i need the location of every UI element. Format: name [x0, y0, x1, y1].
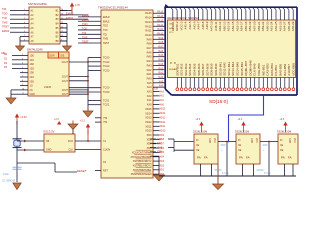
ground below junction line — [83, 108, 93, 118]
svg-text:LS245: LS245 — [44, 86, 52, 89]
ground below U1 left — [16, 43, 25, 52]
svg-text:DS26LS31M: DS26LS31M — [277, 130, 291, 133]
U1 left lower pins to ground wire — [20, 37, 22, 46]
wire drop between U6 U7 — [268, 141, 270, 176]
svg-text:5 Vss: 5 Vss — [222, 171, 229, 175]
U1 left net labels TDI TDO TCK TMS TRST — [2, 7, 22, 33]
svg-text:DM74LS245: DM74LS245 — [27, 48, 43, 52]
svg-text:8: 8 — [24, 40, 25, 42]
svg-text:PA: PA — [281, 156, 285, 160]
svg-text:XSTRB0/XRDY2: XSTRB0/XRDY2 — [133, 160, 152, 163]
P1 top rotated pin names — [171, 21, 295, 31]
svg-text:TMS320VC33_PGE144: TMS320VC33_PGE144 — [98, 6, 128, 10]
svg-text:1: 1 — [24, 9, 25, 11]
svg-text:RA1: RA1 — [159, 72, 164, 75]
svg-text:XA4: XA4 — [159, 85, 164, 88]
wire U4 CLK to U3 — [75, 149, 101, 151]
bus SD horizontal — [172, 94, 298, 96]
svg-text:XHOLDA/XBUSR1: XHOLDA/XBUSR1 — [131, 156, 153, 159]
svg-text:7: 7 — [24, 35, 25, 37]
svg-text:VCC: VCC — [213, 138, 215, 143]
svg-text:FA: FA — [246, 156, 250, 160]
svg-text:VCC: VCC — [255, 138, 257, 143]
svg-text:RA13: RA13 — [145, 21, 152, 24]
svg-text:2D1: 2D1 — [30, 76, 35, 79]
U2 right pin wires to U3 — [69, 62, 88, 94]
svg-text:1D0: 1D0 — [30, 55, 35, 58]
svg-text:Y54: Y54 — [103, 121, 108, 124]
svg-text:IO: IO — [238, 140, 241, 142]
svg-text:TCK: TCK — [82, 27, 87, 31]
svg-text:+3.3: +3.3 — [54, 118, 59, 121]
svg-text:RST: RST — [103, 170, 108, 173]
svg-text:TEST: TEST — [82, 40, 89, 44]
U2 lower left pins to ground wire — [11, 90, 20, 98]
svg-text:TCO0: TCO0 — [103, 87, 110, 90]
svg-text:GND: GND — [250, 138, 252, 143]
IC U3 TMS320VC33 body — [98, 6, 153, 178]
svg-text:XA1: XA1 — [147, 99, 152, 102]
svg-text:PA: PA — [197, 156, 201, 160]
svg-text:2D2: 2D2 — [30, 80, 35, 83]
P1 top pin stubs with bus entries — [171, 7, 293, 20]
svg-text:TRST: TRST — [2, 25, 9, 29]
svg-text:RESET: RESET — [77, 169, 87, 173]
svg-text:XRD: XRD — [157, 151, 162, 154]
svg-text:TCO1: TCO1 — [103, 99, 110, 102]
svg-text:EMU1: EMU1 — [82, 18, 90, 22]
svg-text:XA0: XA0 — [147, 104, 152, 107]
svg-text:4.7K: 4.7K — [75, 4, 80, 7]
svg-text:PA: PA — [239, 156, 243, 160]
svg-text:5: 5 — [22, 67, 23, 69]
svg-text:FCO: FCO — [68, 140, 73, 143]
svg-text:+3.3V: +3.3V — [152, 89, 159, 91]
U2 left pin stubs and numbers — [20, 54, 28, 95]
svg-text:TEST: TEST — [103, 42, 110, 45]
svg-text:XD2: XD2 — [160, 165, 165, 167]
wire drop between U5 U6 — [226, 141, 228, 176]
svg-text:XD10: XD10 — [160, 130, 166, 132]
svg-text:CLKIN: CLKIN — [103, 149, 110, 152]
power label above U4 — [54, 118, 61, 125]
svg-text:OE: OE — [238, 150, 242, 152]
wire U4 FCO to U3 — [75, 140, 101, 142]
svg-text:+3.3V: +3.3V — [20, 115, 27, 119]
svg-text:XA3: XA3 — [157, 142, 162, 145]
P1 bottom terminal rings — [176, 88, 295, 91]
svg-text:RA14: RA14 — [145, 17, 152, 20]
svg-text:GND: GND — [169, 28, 174, 30]
svg-text:TMS: TMS — [82, 35, 88, 39]
ground below U1 right — [63, 43, 72, 52]
svg-text:RA5: RA5 — [147, 56, 152, 59]
svg-text:2: 2 — [24, 13, 25, 15]
wire U6 to U7 — [260, 141, 278, 143]
svg-text:1D2: 1D2 — [30, 63, 35, 66]
svg-text:1OUT: 1OUT — [62, 93, 69, 96]
svg-text:EMU0: EMU0 — [82, 14, 90, 18]
svg-text:1D3: 1D3 — [30, 67, 35, 70]
svg-text:CE: CE — [238, 145, 242, 147]
svg-text:+3.3: +3.3 — [80, 120, 85, 123]
svg-text:10: 10 — [22, 89, 24, 91]
svg-text:XA5: XA5 — [159, 80, 164, 83]
net label near bus bend — [152, 89, 159, 91]
svg-text:6: 6 — [22, 71, 23, 73]
U7 bottom pin wires — [285, 164, 294, 176]
svg-text:XD11: XD11 — [160, 126, 166, 128]
U1 right pin stubs — [60, 11, 67, 41]
svg-text:1G: 1G — [30, 85, 33, 88]
U3 right net labels upper — [157, 11, 163, 88]
IC U5 DS26LS31M body — [193, 130, 218, 164]
svg-text:RA8: RA8 — [159, 41, 164, 44]
IC U6 DS26LS31M body — [235, 130, 260, 164]
svg-text:CLK: CLK — [68, 149, 73, 152]
svg-text:2: 2 — [22, 54, 23, 56]
svg-text:5: 5 — [24, 27, 25, 29]
label 22pF — [3, 172, 9, 176]
svg-text:RA15: RA15 — [157, 11, 163, 14]
svg-text:XMSTRB/XPAGE0: XMSTRB/XPAGE0 — [131, 173, 153, 176]
svg-text:5 Vss: 5 Vss — [264, 171, 271, 175]
svg-text:4: 4 — [24, 22, 25, 24]
wire bottom rail — [159, 175, 296, 177]
net label U8 — [1, 52, 6, 55]
IC U7 DS26LS31M body — [277, 130, 298, 164]
bus right vertical — [296, 7, 298, 95]
svg-text:11: 11 — [22, 93, 24, 95]
svg-text:FA: FA — [204, 156, 208, 160]
svg-text:TMS: TMS — [103, 38, 108, 41]
ground below rail center — [213, 164, 224, 190]
svg-text:XD12: XD12 — [160, 122, 166, 124]
label Vss ticks light blue — [215, 145, 272, 175]
P1 inside left texts — [169, 24, 177, 72]
svg-text:+3.3: +3.3 — [280, 118, 285, 121]
svg-text:RA7: RA7 — [147, 47, 152, 50]
svg-text:RA11: RA11 — [157, 28, 163, 31]
svg-text:TCG0: TCG0 — [103, 61, 110, 64]
svg-text:XA2: XA2 — [157, 138, 162, 141]
svg-text:SDRAM: SDRAM — [169, 68, 177, 71]
svg-text:1OUT: 1OUT — [62, 76, 69, 79]
svg-text:OE: OE — [196, 150, 200, 152]
U6 internal texts — [238, 138, 257, 160]
svg-text:EMU0: EMU0 — [66, 11, 74, 15]
svg-text:RA11: RA11 — [145, 30, 152, 33]
svg-text:EMU0: EMU0 — [2, 29, 10, 33]
svg-text:TCG0: TCG0 — [103, 57, 110, 60]
svg-text:A66-29: A66-29 — [291, 21, 295, 31]
svg-text:XD9: XD9 — [147, 134, 152, 137]
svg-text:RA14: RA14 — [157, 15, 163, 18]
svg-text:XD14: XD14 — [160, 113, 166, 115]
svg-text:RA6: RA6 — [159, 50, 164, 53]
svg-text:TCO0: TCO0 — [103, 91, 110, 94]
U1 internal pin names and numbers — [24, 9, 63, 43]
svg-text:FA: FA — [288, 156, 292, 160]
svg-text:TCG0: TCG0 — [103, 65, 110, 68]
svg-text:TMS: TMS — [2, 20, 8, 24]
svg-text:3: 3 — [22, 58, 23, 60]
U2 highlighted mode cells 2DIR 2OE — [48, 52, 69, 58]
blue select wire — [228, 96, 264, 143]
svg-text:RA2: RA2 — [147, 69, 152, 72]
P1 bottom rotated pin names — [175, 60, 295, 76]
bus diagonal to SD bus — [165, 89, 171, 95]
svg-text:RA0: RA0 — [147, 77, 152, 80]
svg-text:TDO: TDO — [82, 22, 87, 26]
svg-text:2G: 2G — [30, 89, 33, 92]
ground arrow below crystal — [13, 183, 21, 190]
svg-text:Y50: Y50 — [103, 117, 108, 120]
label 32.768KHZ — [2, 179, 16, 183]
ground left of U5 — [150, 156, 165, 181]
svg-text:SN74LVC245A: SN74LVC245A — [28, 2, 47, 6]
U3 internal left pin names mid groups — [103, 57, 110, 173]
svg-text:TDI: TDI — [103, 33, 107, 36]
svg-text:XIOSTRB/XWE1: XIOSTRB/XWE1 — [133, 169, 152, 172]
IC U1 SN74LVC245 body — [28, 2, 60, 44]
U5 bottom pin wires — [201, 164, 212, 176]
svg-text:9: 9 — [22, 84, 23, 86]
svg-text:RA15: RA15 — [145, 12, 152, 15]
svg-text:2DIR: 2DIR — [49, 55, 55, 58]
svg-text:XD4: XD4 — [160, 157, 165, 159]
svg-text:XD15: XD15 — [160, 109, 166, 111]
bus top horizontal — [166, 6, 297, 8]
svg-text:VCC-B58: VCC-B58 — [291, 63, 295, 76]
svg-text:RA10: RA10 — [157, 32, 163, 35]
svg-text:XD11: XD11 — [145, 125, 152, 128]
svg-text:RA3: RA3 — [159, 63, 164, 66]
svg-text:1OUT: 1OUT — [62, 89, 69, 92]
svg-text:CE: CE — [280, 145, 284, 147]
svg-text:CE: CE — [196, 145, 200, 147]
svg-text:XWE: XWE — [157, 146, 163, 149]
svg-text:RA3: RA3 — [147, 64, 152, 67]
svg-text:RA1: RA1 — [147, 73, 152, 76]
U2 internal right pin names — [44, 61, 69, 96]
connector P1 HEADER body — [167, 16, 296, 78]
svg-text:GND: GND — [208, 138, 210, 143]
wire crystal to OSC pin1 — [17, 140, 44, 143]
svg-text:OE: OE — [280, 150, 284, 152]
svg-text:RA8: RA8 — [147, 43, 152, 46]
svg-text:XA0: XA0 — [160, 103, 165, 106]
ground below U2 — [6, 95, 16, 105]
svg-text:6: 6 — [24, 31, 25, 33]
svg-text:RA4: RA4 — [159, 59, 164, 62]
svg-text:RA5: RA5 — [159, 54, 164, 57]
svg-text:3: 3 — [24, 18, 25, 20]
svg-text:RA10: RA10 — [145, 34, 152, 37]
svg-text:8: 8 — [22, 80, 23, 82]
oscillator U4 body — [43, 130, 75, 152]
svg-text:IO: IO — [196, 140, 199, 142]
feeder net labels to U5 — [150, 138, 163, 154]
bus left vertical — [164, 4, 170, 89]
svg-text:XA3: XA3 — [160, 90, 165, 93]
node wire vertical junction to U3 left pins — [69, 58, 101, 111]
U7 internal texts — [280, 138, 295, 160]
svg-text:22pF: 22pF — [3, 172, 9, 176]
U3 internal right pin names — [131, 12, 153, 176]
svg-text:RA2: RA2 — [159, 67, 164, 70]
svg-text:XD3: XD3 — [160, 161, 165, 163]
svg-text:TCK: TCK — [2, 16, 7, 20]
svg-text:EMU1: EMU1 — [66, 16, 74, 20]
U6 bottom pin wires — [243, 164, 254, 176]
svg-text:TDO: TDO — [2, 12, 7, 16]
svg-text:2OE: 2OE — [60, 55, 65, 58]
U3 right bus wires upper (to address bus) — [153, 13, 164, 87]
svg-text:IO: IO — [280, 140, 283, 142]
svg-text:RA6: RA6 — [147, 51, 152, 54]
RESET net label — [77, 169, 101, 173]
svg-text:OSC3.3V: OSC3.3V — [43, 130, 55, 134]
svg-text:2OUT: 2OUT — [62, 61, 69, 64]
wire U5 to U6 — [218, 141, 236, 143]
svg-text:XA5: XA5 — [147, 82, 152, 85]
power +3.3V for crystal — [15, 114, 27, 125]
svg-text:XCLKOUT/XRW0: XCLKOUT/XRW0 — [132, 151, 152, 154]
U4 internal pin names — [46, 140, 73, 152]
svg-text:7: 7 — [22, 76, 23, 78]
crystal Y1 — [13, 139, 22, 148]
svg-text:RA4: RA4 — [147, 60, 152, 63]
svg-text:1OUT: 1OUT — [62, 80, 69, 83]
svg-text:EMU1: EMU1 — [103, 20, 110, 23]
svg-text:GND: GND — [46, 149, 52, 152]
P1 bottom pin stubs — [177, 78, 293, 88]
svg-text:GND: GND — [30, 93, 36, 96]
svg-text:RA12: RA12 — [157, 24, 163, 27]
svg-text:VCC: VCC — [169, 32, 174, 34]
U1 right net wires and labels EMU0 EMU1 — [60, 11, 88, 20]
svg-text:XA1: XA1 — [160, 99, 165, 102]
svg-text:SD[15:0]: SD[15:0] — [209, 99, 228, 105]
wire feeders into U5 — [168, 139, 194, 152]
power +3.3V above U5 — [196, 118, 204, 133]
svg-text:XD12: XD12 — [145, 121, 152, 124]
U2 internal left pin names — [30, 55, 36, 97]
power +3.3V above U6 — [238, 118, 246, 133]
svg-text:RA7: RA7 — [159, 46, 164, 49]
svg-text:RA9: RA9 — [159, 37, 164, 40]
svg-text:4: 4 — [22, 63, 23, 65]
svg-text:XA3: XA3 — [147, 91, 152, 94]
svg-text:EMU0: EMU0 — [103, 16, 110, 19]
wire crystal vertical — [16, 121, 18, 182]
svg-text:VCC: VCC — [293, 138, 295, 143]
svg-text:XD10: XD10 — [145, 130, 152, 133]
svg-text:XB: XB — [46, 140, 50, 143]
svg-text:1D1: 1D1 — [30, 59, 35, 62]
svg-text:+3.3: +3.3 — [238, 118, 243, 121]
U3 left stubs Y50 Y54 — [95, 118, 101, 122]
svg-text:XA2: XA2 — [160, 95, 165, 98]
U5 internal texts — [196, 138, 215, 160]
svg-text:RA12: RA12 — [145, 25, 152, 28]
svg-text:2D0: 2D0 — [30, 72, 35, 75]
svg-text:RA9: RA9 — [147, 38, 152, 41]
U1 right lower pins to ground wire — [60, 24, 67, 46]
svg-text:XD13: XD13 — [160, 117, 166, 119]
U2 left net labels — [4, 53, 20, 69]
power +3.3V above U7 — [280, 118, 288, 133]
bus label SD[15:0] — [209, 99, 228, 105]
capacitor C1 plates — [13, 167, 22, 169]
svg-text:TDI: TDI — [2, 7, 6, 11]
svg-text:RA0: RA0 — [159, 76, 164, 79]
svg-text:TDI: TDI — [82, 31, 86, 35]
svg-text:XD13: XD13 — [145, 117, 152, 120]
power pull-up on FCO line — [80, 120, 90, 142]
svg-text:GND: GND — [288, 138, 290, 143]
svg-text:RA13: RA13 — [157, 19, 163, 22]
svg-text:TCK: TCK — [103, 29, 108, 32]
svg-text:TCO1: TCO1 — [103, 104, 110, 107]
svg-text:XD1: XD1 — [160, 170, 165, 172]
svg-text:XA2: XA2 — [147, 95, 152, 98]
svg-text:DS26LS31M: DS26LS31M — [235, 130, 249, 133]
svg-text:32.768KHZ: 32.768KHZ — [2, 179, 16, 183]
svg-text:DS26LS31M: DS26LS31M — [193, 130, 207, 133]
ground above U4 — [68, 121, 78, 135]
svg-text:TDO: TDO — [103, 25, 108, 28]
U3 left JTAG wires and labels — [78, 14, 110, 46]
wire crystal to OSC pin2 — [17, 149, 44, 152]
svg-text:TCG0: TCG0 — [103, 69, 110, 72]
power +3.3V pull-up above U1 right — [70, 3, 81, 14]
svg-text:GND: GND — [169, 24, 174, 26]
svg-text:XD14: XD14 — [145, 112, 152, 115]
svg-text:XSTRB1/XRDY3: XSTRB1/XRDY3 — [133, 164, 152, 167]
svg-text:+3.3: +3.3 — [196, 118, 201, 121]
U1 left pin stubs — [22, 11, 29, 41]
IC U2 DM74LS245 body — [27, 48, 69, 96]
svg-text:XD15: XD15 — [145, 108, 152, 111]
wire X2 horizontal — [17, 163, 77, 172]
U3 right stub wires lower with labels — [153, 90, 166, 176]
svg-text:XD9: XD9 — [160, 135, 165, 137]
